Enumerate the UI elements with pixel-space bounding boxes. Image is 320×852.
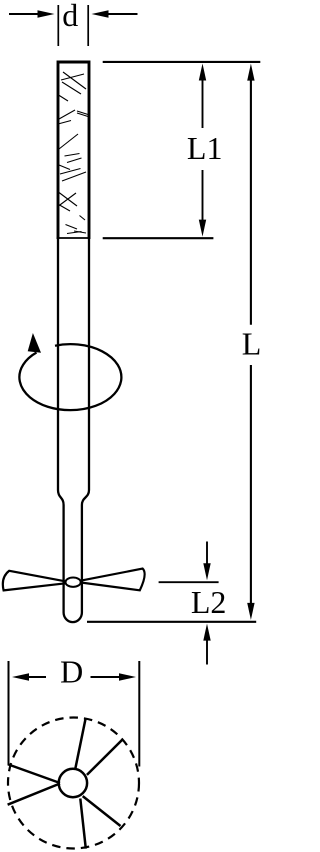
svg-text:L: L [242, 326, 262, 362]
L2 arrow down (above) [203, 542, 210, 581]
blade lower right [83, 796, 121, 826]
propeller right blade (side view) [80, 569, 145, 591]
L1 dimension arrow down [199, 170, 206, 237]
knurl texture [58, 72, 88, 234]
shaft bottom rounded cap [64, 613, 82, 623]
blade left upper [9, 765, 61, 784]
D dimension right extension line [138, 661, 140, 767]
blade top [75, 719, 85, 769]
svg-text:L1: L1 [187, 130, 223, 166]
svg-text:d: d [62, 0, 78, 33]
L1 top extension line [103, 61, 261, 63]
extension line left of d [57, 5, 59, 46]
rotation arrowhead [28, 333, 41, 353]
shaft right edge with taper [82, 239, 89, 613]
propeller circle dashed (top view) [8, 718, 139, 849]
dimension d left arrow [9, 10, 55, 18]
L1 bottom extension line [103, 237, 214, 239]
L2 reference line at hub level [159, 581, 219, 583]
rotation arrow ellipse arc [19, 344, 121, 410]
knurled section bottom line [57, 237, 91, 239]
blade upper right [87, 740, 122, 775]
L dimension line top segment [247, 64, 254, 325]
blade left lower [8, 784, 60, 805]
svg-text:D: D [60, 654, 83, 690]
bottom extension line [87, 621, 256, 623]
dimension d right arrow [92, 10, 138, 18]
propeller hub (side view) [66, 578, 81, 587]
extension line right of d [87, 5, 89, 46]
L1 dimension arrow up [199, 64, 206, 129]
D arrow left [12, 673, 46, 680]
blade bottom [80, 799, 86, 849]
D dimension left extension line [8, 661, 10, 766]
D arrow right [91, 673, 137, 680]
svg-text:L2: L2 [191, 584, 227, 620]
propeller hub (top view) [59, 769, 87, 797]
shaft knurled section outline [58, 62, 89, 239]
L dimension line bottom segment [247, 365, 254, 620]
shaft left edge with taper [58, 239, 64, 613]
L2 arrow up (below) [203, 624, 210, 665]
propeller left blade (side view) [3, 571, 67, 591]
